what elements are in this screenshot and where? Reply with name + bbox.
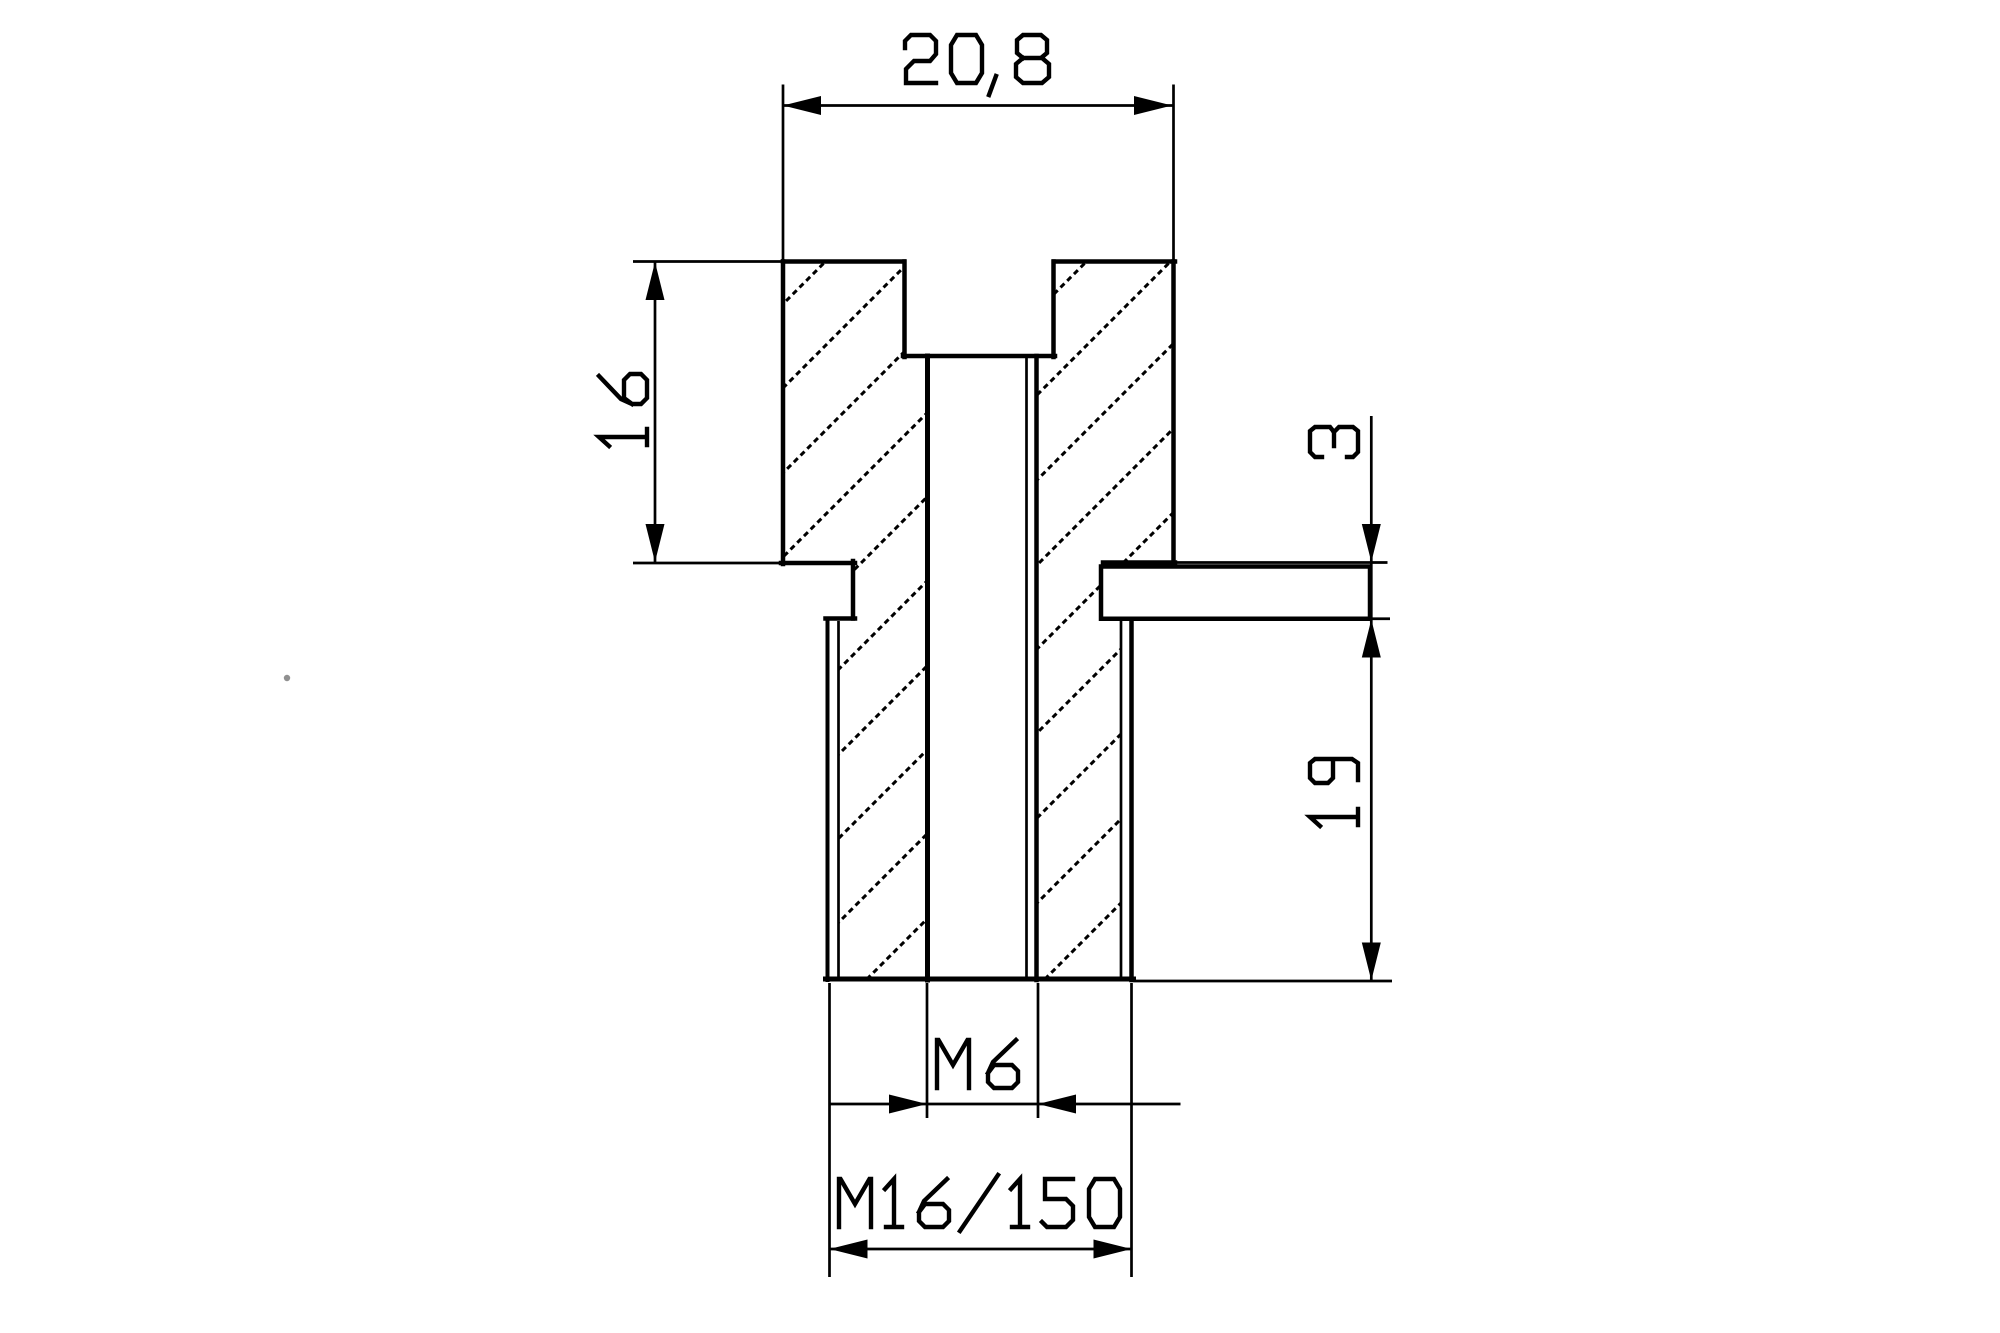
- stray gray dot: [284, 675, 290, 681]
- arrow 19 bottom: [1362, 943, 1381, 981]
- part outline : thick lines: [781, 262, 1175, 981]
- ext above left (20,8): [782, 85, 785, 262]
- ext shoulder right for 3: [1175, 561, 1388, 564]
- text M16/150: [839, 1175, 1120, 1231]
- text M6: [937, 1040, 1018, 1088]
- dim line M6: [829, 1103, 1181, 1106]
- counterbore bottom: [903, 354, 1055, 359]
- bottom face: [826, 977, 1134, 982]
- thread crest left: [826, 619, 830, 981]
- dim line 16: [654, 261, 657, 563]
- arrow 3 upper: [1362, 524, 1381, 562]
- ext shoulder left for 16: [633, 562, 783, 565]
- arrow M6 left: [889, 1095, 927, 1114]
- thin thread lines: [839, 356, 1122, 979]
- text 16 (vertical): [599, 374, 647, 446]
- ext top-left of head: [633, 260, 783, 263]
- ext above right (20,8): [1172, 85, 1175, 262]
- arrow M6 right: [1038, 1095, 1076, 1114]
- ext part bottom for 19: [1134, 980, 1393, 983]
- thread root left: [837, 621, 840, 979]
- right shoulder: [1103, 560, 1175, 565]
- arrow 3 lower / 19 top: [1362, 620, 1381, 658]
- arrow 20,8 left: [783, 96, 821, 115]
- hatching left half (section lines 45deg): [87, 250, 1596, 1000]
- dim line 20,8: [782, 104, 1173, 107]
- flange washer: [1101, 567, 1370, 619]
- arrow M16 left: [830, 1240, 868, 1259]
- thread root right: [1120, 619, 1123, 979]
- ext M16/150 right: [1130, 983, 1133, 1277]
- arrowheads: [646, 96, 1381, 1259]
- dimension and extension lines : thin: [633, 85, 1392, 1278]
- text 20,8: [905, 35, 936, 83]
- text 19 (vertical): [1310, 759, 1358, 826]
- tapped hole right wall: [1034, 356, 1039, 980]
- hole thread line right: [1025, 356, 1028, 979]
- counterbore right wall: [1051, 262, 1056, 358]
- hatching right half (section lines 45deg): [348, 250, 1858, 1000]
- arrow 16 top: [646, 262, 665, 300]
- dim line M16/150: [830, 1248, 1132, 1251]
- text 3 (vertical): [1310, 427, 1358, 457]
- left relief step: [826, 616, 856, 621]
- arrow 16 bottom: [646, 524, 665, 562]
- thread crest right: [1129, 620, 1134, 980]
- ext M6 right: [1037, 983, 1040, 1118]
- top face right segment: [1054, 259, 1175, 264]
- top face left segment: [783, 259, 904, 264]
- counterbore left wall: [902, 262, 907, 358]
- right edge of head: [1171, 262, 1176, 564]
- ext flange bottom for 3/19: [1370, 617, 1390, 620]
- dimension texts drawn with stroke glyphs: [599, 35, 1358, 1231]
- ext M16/150 left: [828, 983, 831, 1277]
- arrow M16 right: [1094, 1240, 1132, 1259]
- left relief neck: [851, 561, 856, 619]
- left shoulder: [781, 561, 855, 566]
- arrow 20,8 right: [1134, 96, 1172, 115]
- tapped hole left wall: [925, 356, 930, 980]
- dim line 3 and 19: [1370, 416, 1373, 981]
- left edge of head: [781, 262, 786, 565]
- ext M6 left: [926, 983, 929, 1118]
